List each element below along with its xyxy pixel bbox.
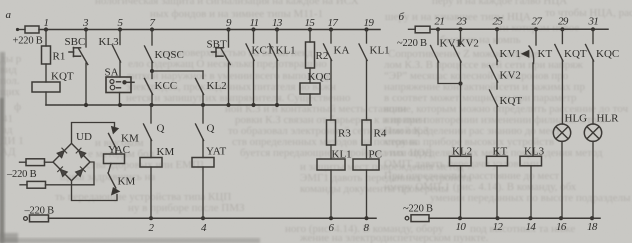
svg-text:KM: KM [157, 146, 175, 158]
wire [150, 167, 152, 218]
wire [85, 30, 87, 48]
wire [202, 105, 204, 123]
relay coil KL2 [450, 156, 472, 166]
svg-text:1: 1 [44, 17, 49, 29]
wire [202, 140, 204, 158]
wire [535, 29, 537, 45]
resistor R2 [306, 42, 315, 68]
wire [532, 63, 534, 156]
wire [496, 166, 498, 218]
rectifier bridge UD [53, 143, 90, 180]
lamp HLG [553, 124, 570, 141]
time contact KT [522, 46, 534, 64]
svg-text:PC: PC [369, 149, 382, 161]
node 12 [495, 216, 499, 220]
resistor R1 [42, 46, 51, 64]
wire [119, 93, 121, 106]
wire [437, 29, 439, 44]
node 21 [436, 27, 440, 31]
svg-text:–220 В: –220 В [6, 169, 37, 180]
svg-text:KL3: KL3 [524, 146, 545, 158]
wire [496, 106, 498, 157]
wire [460, 166, 462, 218]
wire [330, 170, 332, 218]
node 7 [150, 27, 154, 31]
wire [202, 167, 204, 218]
wire [460, 29, 462, 44]
node 17 [329, 27, 333, 31]
wire [90, 162, 94, 185]
svg-text:KV1: KV1 [500, 48, 521, 60]
svg-text:KQC: KQC [596, 48, 619, 60]
node 19 [364, 27, 368, 31]
svg-text:13: 13 [272, 17, 283, 29]
node KL2-mid [201, 103, 205, 107]
node SBT-mid [226, 103, 230, 107]
wire [253, 60, 255, 106]
lamp HLR [584, 124, 601, 141]
node 27 [534, 27, 538, 31]
svg-text:YAC: YAC [108, 144, 130, 156]
wire [438, 61, 461, 84]
fuse FU1 [25, 26, 39, 33]
bus top B [430, 28, 608, 30]
contact KV2a [453, 46, 461, 63]
wire [366, 145, 368, 159]
node 31 [591, 27, 595, 31]
control switch SA [106, 77, 134, 93]
wire [46, 184, 95, 186]
svg-text:KL2: KL2 [207, 80, 227, 92]
svg-text:KT: KT [538, 48, 553, 60]
wire [45, 92, 47, 105]
node 11 [251, 27, 255, 31]
wire [309, 94, 311, 105]
svg-text:KA: KA [334, 45, 350, 57]
contact KV1b [490, 45, 498, 62]
contact KQTc [555, 45, 563, 62]
svg-text:15: 15 [305, 17, 316, 29]
bus mid A [46, 104, 311, 106]
wire [115, 148, 117, 155]
wire [151, 62, 153, 72]
svg-text:KQT: KQT [500, 95, 523, 107]
svg-text:KT: KT [493, 146, 508, 158]
svg-text:KV2: KV2 [500, 70, 521, 82]
svg-text:KL2: KL2 [452, 146, 472, 158]
wire [119, 30, 121, 45]
node 4 [201, 216, 205, 220]
wire [496, 29, 498, 43]
svg-text:~220 В: ~220 В [397, 38, 427, 49]
wire [561, 141, 563, 218]
wire [151, 94, 153, 106]
bus bottom A [49, 217, 377, 219]
svg-text:SA: SA [105, 67, 119, 79]
wire [309, 68, 311, 83]
svg-text:~220 В: ~220 В [403, 204, 433, 215]
wire [18, 29, 26, 31]
relay coil KQC [300, 83, 320, 94]
contactor coil KM [140, 158, 162, 168]
relay coil PC [353, 159, 379, 170]
wire [592, 29, 594, 43]
svg-text:R4: R4 [374, 128, 387, 140]
fuse FU3 [20, 181, 46, 188]
wire [366, 30, 368, 44]
node 6 [329, 216, 333, 220]
svg-text:KL1: KL1 [276, 45, 296, 57]
contact KL1a [270, 44, 278, 61]
svg-text:SBT: SBT [207, 39, 227, 51]
node KL1-mid [275, 103, 279, 107]
node SBC-mid [84, 103, 88, 107]
svg-text:KM: KM [118, 176, 136, 188]
wire [152, 70, 203, 72]
svg-text:YAT: YAT [206, 146, 226, 158]
contact KQSC [145, 46, 153, 63]
wire [330, 145, 332, 159]
svg-text:KQC: KQC [308, 71, 331, 83]
wire [228, 63, 230, 105]
wire [151, 71, 153, 79]
contact KL2 [196, 79, 204, 95]
supply terminal +220V [16, 28, 19, 31]
relay coil KL3 [520, 156, 542, 166]
node 16 [559, 216, 563, 220]
wire [253, 30, 255, 44]
svg-text:KQT: KQT [51, 71, 74, 83]
svg-text:KV2: KV2 [458, 38, 479, 50]
contact KM2 [108, 173, 120, 195]
node 25 [495, 27, 499, 31]
svg-text:–220 В: –220 В [24, 206, 55, 217]
svg-text:KQT: KQT [564, 48, 587, 60]
page gutter shadow [0, 52, 5, 243]
svg-text:+220 В: +220 В [13, 36, 43, 47]
svg-text:SBC: SBC [65, 36, 86, 48]
wire [561, 29, 563, 43]
svg-text:12: 12 [493, 221, 504, 233]
wire [202, 71, 204, 79]
contact KQTb [490, 90, 498, 107]
svg-text:17: 17 [328, 17, 339, 29]
node 5 [118, 27, 122, 31]
contact KCT [246, 44, 254, 61]
contact KCC [145, 79, 153, 95]
svg-text:25: 25 [493, 16, 504, 28]
node 3 [84, 27, 88, 31]
svg-text:HLG: HLG [565, 113, 588, 125]
node 8 [364, 216, 368, 220]
wire [119, 61, 121, 77]
node KCC-mid [149, 103, 153, 107]
fuse FU6 [411, 215, 429, 222]
fuse FU5 [415, 26, 430, 33]
supply terminal -220V lower [24, 217, 28, 221]
wire [309, 30, 311, 43]
contact KV2b [490, 66, 498, 83]
wire [460, 61, 462, 156]
relay coil KT [487, 156, 508, 166]
contact KL1b [359, 44, 367, 61]
wire [150, 140, 152, 158]
wire [530, 166, 532, 218]
svg-text:R2: R2 [316, 50, 329, 62]
svg-text:R3: R3 [338, 128, 351, 140]
svg-text:16: 16 [556, 221, 567, 233]
node 18 [590, 216, 594, 220]
svg-text:14: 14 [526, 221, 537, 233]
svg-text:31: 31 [588, 16, 599, 28]
wire [592, 60, 594, 124]
wire [496, 60, 498, 65]
bus bottom B [429, 217, 600, 219]
wire [45, 161, 54, 163]
resistor R4 [362, 120, 371, 145]
contact KQC [586, 45, 594, 62]
node 10 [458, 216, 462, 220]
node SA-mid [118, 103, 122, 107]
relay coil KQT [32, 82, 60, 92]
bus top A [39, 29, 380, 31]
contact Q1 [144, 124, 152, 141]
wire [276, 60, 278, 106]
wire [561, 60, 563, 124]
wire [366, 170, 368, 218]
svg-text:11: 11 [250, 17, 259, 29]
svg-text:KQSC: KQSC [155, 49, 184, 61]
trip coil YAT [192, 158, 214, 168]
svg-text:UD: UD [76, 131, 92, 143]
node KQSC-branch [150, 69, 154, 73]
contact KV1a [431, 46, 439, 63]
wire [276, 30, 278, 44]
wire [109, 164, 112, 173]
contact KM1 [109, 126, 119, 148]
svg-text:KM: KM [121, 133, 139, 145]
svg-text:19: 19 [364, 17, 375, 29]
wire [228, 30, 230, 48]
closing coil YAC [104, 154, 125, 164]
svg-text:Q: Q [157, 123, 165, 135]
svg-text:21: 21 [435, 16, 445, 28]
supply terminal ~220V top right [409, 28, 416, 30]
wire [151, 30, 153, 46]
svg-text:23: 23 [457, 16, 468, 28]
svg-text:KL1: KL1 [370, 45, 390, 57]
wire [72, 181, 118, 201]
wire [366, 60, 368, 121]
svg-text:KCC: KCC [155, 80, 178, 92]
node 15 [308, 27, 312, 31]
fuse FU4 [30, 215, 49, 222]
node 2 [149, 216, 153, 220]
svg-text:29: 29 [558, 16, 569, 28]
svg-text:KL3: KL3 [99, 36, 120, 48]
resistor R3 [327, 120, 336, 145]
node 23 [458, 27, 462, 31]
contact KA [324, 44, 332, 61]
svg-text:KL1: KL1 [332, 149, 352, 161]
wire [202, 94, 204, 106]
node 29 [560, 27, 564, 31]
node KCT-mid [251, 103, 255, 107]
svg-text:R1: R1 [53, 51, 66, 63]
node 9 [226, 27, 230, 31]
pushbutton SBT [212, 48, 231, 65]
svg-text:KCT: KCT [252, 45, 274, 57]
node 1 [44, 27, 48, 31]
svg-text:HLR: HLR [597, 113, 620, 125]
svg-text:27: 27 [532, 16, 543, 28]
wire [592, 141, 594, 218]
wire [330, 60, 332, 121]
relay coil KL1 [317, 159, 345, 170]
svg-text:18: 18 [587, 221, 598, 233]
wire [45, 30, 47, 47]
node 14 [528, 216, 532, 220]
contact KL3 [113, 46, 121, 63]
wire [150, 105, 152, 123]
fuse FU2 [20, 159, 45, 166]
wire [72, 123, 115, 144]
wire [85, 63, 87, 105]
node KV-merge [458, 81, 462, 85]
contact Q2 [196, 124, 204, 141]
wire [496, 81, 498, 89]
pushbutton SBC [69, 48, 88, 65]
node 13 [275, 27, 279, 31]
wire [45, 64, 47, 82]
svg-text:10: 10 [456, 221, 467, 233]
wire [330, 30, 332, 44]
supply terminal ~220V bottom right [405, 216, 409, 220]
svg-text:Q: Q [207, 123, 215, 135]
